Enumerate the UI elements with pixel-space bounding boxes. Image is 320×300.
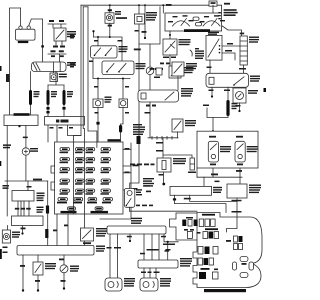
wire lamp2 drop with circuit breaker [119, 108, 129, 143]
washer fluid pump lower [59, 255, 79, 290]
PDC fuse group B [197, 232, 219, 239]
front marker lamp 1 [93, 97, 112, 108]
LH front door lock motor [170, 181, 222, 196]
battery B1 [16, 26, 36, 43]
wiper switch connector [107, 218, 166, 234]
LH door jamb switch [91, 46, 128, 58]
PDC lobe [170, 213, 198, 240]
wire battery to starter riser [21, 8, 43, 62]
A/C compressor clutch [157, 158, 186, 172]
RH front door lock switch [235, 136, 258, 166]
fuse block [51, 139, 123, 214]
heater and A/C control assembly [165, 9, 238, 32]
fusible link B [46, 85, 57, 117]
lower left relay box [12, 216, 44, 226]
wire PPL drop [64, 214, 68, 246]
glove box lamp [124, 185, 151, 207]
PDC fuse A label [202, 214, 215, 216]
wire BLK stub with dot [142, 5, 147, 39]
wire connector bar 1 [48, 24, 66, 28]
wire blower feeds to relay [207, 60, 247, 73]
connector bar [148, 136, 178, 139]
neutral start switch [54, 28, 76, 41]
PDC outline [193, 213, 262, 288]
LH front door lock switch [208, 136, 231, 166]
label left of bus pair lower [70, 64, 75, 66]
PDC fuse B label [205, 228, 218, 230]
label to PCM block [133, 124, 145, 135]
key-in warning switch [81, 214, 108, 246]
wire BLK stub below relay box [21, 226, 26, 235]
PDC row 2 [198, 258, 214, 265]
PDC lobe fuses [184, 229, 194, 238]
PDC right 2x2 group [226, 236, 243, 250]
wire battery left feed [10, 8, 21, 115]
front marker lamp 2 [119, 99, 128, 108]
small box on top edge [209, 1, 230, 13]
RH front door lock motor [227, 184, 261, 198]
top bus horizontal outer [81, 5, 242, 36]
wire marker lamp header [89, 58, 130, 99]
fusible link A [29, 72, 40, 116]
PDC mid row [198, 247, 218, 255]
washer pump motor [2, 226, 20, 244]
fuse row 1 [60, 148, 111, 154]
wiper washer switch lower [33, 255, 56, 292]
wire RH motor to PDC [227, 198, 242, 232]
left margin specks [0, 66, 8, 259]
wires door lock box down [197, 168, 242, 186]
wire PNK-BLK long run to glove lamp [130, 7, 160, 189]
LH front power window motor [105, 278, 135, 291]
bus through fuse block [74, 142, 97, 214]
fuse row 6 [57, 198, 113, 204]
bus vertical 3 [88, 7, 97, 142]
wires below RH connector [141, 268, 160, 278]
wires ignition box feeds down [48, 125, 81, 142]
wire tank switch drop PNK-BLK [135, 24, 140, 44]
wire relay to fusible link red [203, 87, 238, 117]
fuse block outer wire [100, 143, 131, 219]
blower motor [233, 88, 258, 103]
wire lamp1 drop with tick [95, 108, 100, 143]
wire motor ground [236, 103, 241, 112]
label radio speaker row [130, 164, 155, 166]
wires below wiper connector [107, 234, 179, 278]
top bus horizontal inner [83, 6, 88, 8]
PDC battery row [199, 268, 218, 279]
wire starter to fusible links header [48, 72, 64, 86]
PDC fuse group A [182, 217, 215, 227]
label to vehicle control module [190, 48, 204, 59]
fuse block right stubs [123, 148, 139, 190]
door lock assembly [197, 118, 258, 169]
wire below neutral switch connector ticks [48, 41, 66, 62]
wire gather line y181 [5, 179, 48, 181]
right margin speck [264, 88, 267, 92]
bus vertical 2 [83, 7, 84, 142]
wire left lower feed [3, 181, 10, 216]
wire below vacuum switch [160, 55, 176, 66]
fuse row 3 [60, 168, 111, 174]
RH front power window motor [140, 278, 171, 291]
label left of bus pair upper [70, 35, 75, 37]
wire mid horizontal y211 [130, 207, 197, 211]
connector 1-B [150, 68, 163, 78]
engine indicator lamp [22, 126, 38, 182]
blower switch [206, 32, 222, 60]
tank door control switch [135, 5, 158, 24]
bulkhead connector [17, 246, 105, 256]
horn relay component [105, 5, 127, 23]
A/C cycling switch [172, 119, 196, 138]
wire ground 1 below bulkhead [20, 255, 25, 292]
starter solenoid [50, 72, 67, 82]
wire bar to clutch [156, 138, 192, 158]
wire horn relay drop [108, 23, 112, 37]
PDC caption [204, 289, 246, 292]
generator [4, 113, 38, 125]
wire relay CB stub [209, 87, 214, 97]
bus vertical 1 [74, 5, 82, 142]
wire jamb header y37 [92, 30, 122, 61]
PDC rounded tabs [233, 257, 254, 278]
RH door jamb switch [102, 61, 146, 75]
tick on ignition feed [46, 111, 49, 113]
blower motor relay [206, 73, 260, 87]
node dots top bus [109, 4, 165, 6]
A/C compressor relay [138, 75, 193, 102]
fuse row power door locks [61, 207, 109, 213]
lower left fuse box [12, 181, 45, 201]
fuse row 2 [60, 158, 111, 164]
starter motor [32, 62, 77, 72]
fuse row 4 [60, 179, 111, 185]
wire CB drop [53, 214, 57, 246]
wires between lower boxes [15, 201, 44, 216]
distributor vacuum control switch [163, 31, 191, 55]
fusible link C [62, 85, 73, 117]
wire blower switch to resistor [222, 43, 240, 60]
wire clutch ground [143, 172, 165, 187]
wire generator drops [3, 125, 21, 181]
diode [188, 158, 196, 173]
wire relay drop C-A [145, 102, 157, 138]
label BLK on left feed [6, 74, 9, 82]
wires LH motor down [173, 195, 237, 212]
label BLK dashes row [136, 205, 153, 207]
wire PNK-BLK right run to bulkhead [45, 181, 49, 246]
ignition switch [45, 117, 85, 126]
horn [146, 44, 163, 75]
fuse row 5 [60, 189, 111, 195]
pressure switch 4-3 [169, 66, 194, 78]
label A/T M/T row [49, 20, 64, 22]
blower motor resistor [240, 33, 259, 65]
RH window connector [138, 258, 192, 268]
label RED top left of heater box [163, 4, 171, 13]
A/C pressure switch [172, 62, 197, 90]
